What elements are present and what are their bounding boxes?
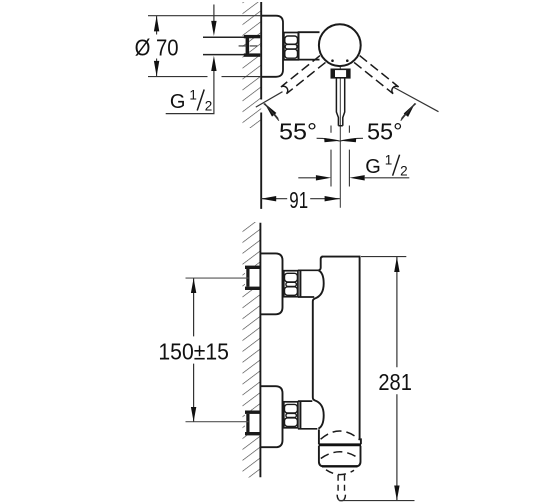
91 dimension line + arrows	[261, 198, 340, 200]
svg-text:55°: 55°	[279, 119, 317, 145]
281 extension lines	[339, 257, 415, 501]
pipe centerline (top view)	[239, 45, 264, 47]
angle leg line right	[394, 87, 439, 111]
ghost lever left (55° position, dashed)	[281, 56, 326, 94]
angle leg line left	[256, 92, 283, 107]
lever shaft (top view)	[336, 78, 344, 126]
hex nut top (front view)	[284, 271, 298, 297]
55° arc right	[340, 104, 416, 142]
150±15 dimension line + arrows	[193, 278, 195, 422]
arc arrow left-outer	[265, 103, 277, 116]
281 dimension line + arrows	[396, 257, 398, 501]
arc arrow right-outer	[404, 103, 415, 117]
svg-text:1: 1	[385, 153, 393, 168]
arc arrows at centerline (bowtie)	[324, 138, 340, 142]
hidden arc below cup (dashed)	[326, 470, 354, 475]
ghost lever right (55° position, dashed)	[354, 56, 399, 94]
escutcheon (top view)	[261, 16, 283, 77]
adapter between nut and cap (top view)	[299, 32, 320, 59]
pin dots	[331, 59, 334, 62]
Ø70 extension lines	[148, 16, 261, 77]
G1/2 outlet dimension arrows	[298, 177, 316, 179]
wall fitting bottom (front view)	[245, 411, 260, 436]
svg-text:150±15: 150±15	[158, 339, 229, 365]
svg-text:G: G	[170, 91, 186, 113]
svg-text:91: 91	[289, 187, 308, 213]
faucet centerline (top view)	[339, 67, 341, 208]
extension line to top connection	[186, 277, 249, 279]
wall hatch (front view)	[243, 222, 261, 478]
svg-text:2: 2	[205, 99, 213, 114]
wall hatch (top view)	[243, 2, 262, 128]
supply pipe in wall (top view)	[203, 37, 245, 54]
Ø70 dimension line + arrows	[156, 16, 158, 76]
bottom connector pipe	[298, 401, 317, 429]
hidden rim arc inside cup (dashed)	[321, 452, 359, 459]
wall fitting (top view)	[244, 35, 260, 38]
svg-text:55°: 55°	[367, 119, 403, 145]
escutcheon bottom (front view)	[260, 386, 282, 447]
G1/2 leader (top label)	[166, 5, 214, 114]
hex nut (top view)	[284, 33, 298, 60]
body outline (front view)	[318, 257, 323, 271]
55° arc left	[264, 104, 340, 142]
wall fitting top (front view)	[245, 266, 260, 290]
seam between body and cup	[319, 443, 361, 446]
svg-text:G: G	[365, 156, 381, 178]
svg-text:2: 2	[400, 164, 408, 179]
outlet cup	[319, 446, 361, 467]
mixer cap circle (top view)	[319, 24, 361, 66]
hose nipple (dashed)	[337, 475, 345, 500]
G1/2 outlet extension lines	[331, 126, 349, 187]
svg-text:Ø 70: Ø 70	[135, 35, 179, 61]
svg-text:281: 281	[378, 369, 412, 395]
escutcheon top (front view)	[260, 253, 282, 314]
svg-text:1: 1	[189, 87, 197, 102]
wall surface line (front view)	[259, 223, 261, 477]
lever collar (top view)	[331, 69, 350, 78]
top connector pipe	[298, 270, 318, 297]
hidden rim arc above seam (dashed)	[321, 431, 359, 439]
hex nut bottom (front view)	[284, 402, 298, 428]
extension line to bottom connection	[186, 421, 249, 423]
wall surface line (top view)	[260, 2, 262, 209]
